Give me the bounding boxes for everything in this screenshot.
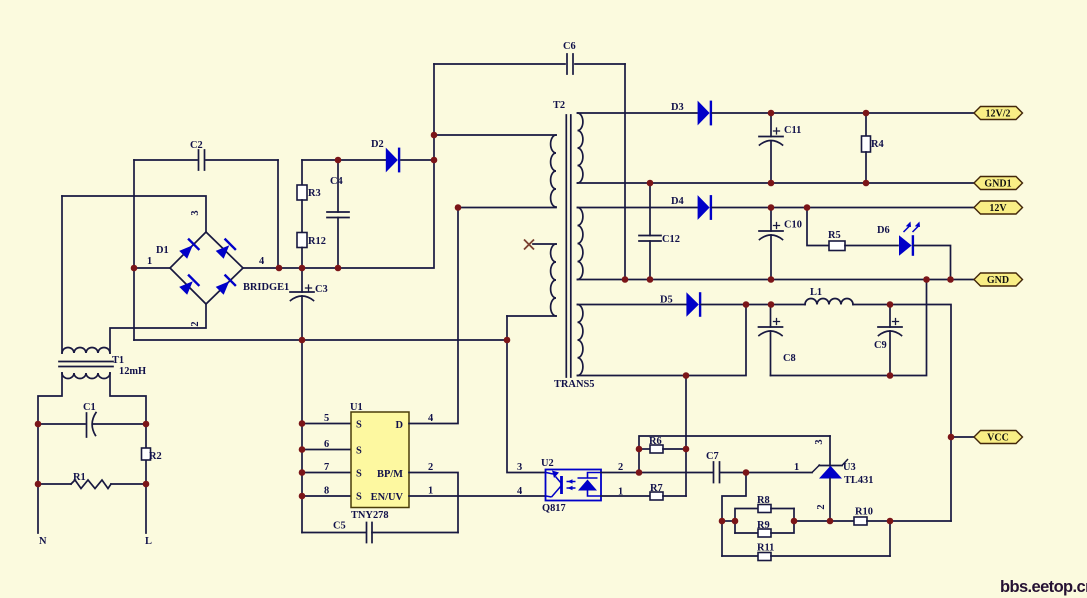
svg-text:S: S [356, 446, 362, 457]
junction C10 pos [768, 204, 775, 211]
wire C8 ground rail [771, 280, 927, 376]
wire primary top lead [434, 134, 556, 136]
bridge diode top-left [178, 239, 200, 261]
wire C6 right drop [624, 64, 626, 280]
svg-text:D4: D4 [671, 196, 684, 207]
svg-text:U2: U2 [541, 458, 554, 469]
junction bias return [504, 337, 511, 344]
wire T1 upper-left lead [61, 196, 63, 353]
junction primary top [431, 132, 438, 139]
svg-text:2: 2 [618, 462, 623, 473]
svg-text:R10: R10 [855, 507, 873, 518]
svg-text:C11: C11 [784, 125, 801, 136]
wire U1 pin8 [302, 495, 351, 497]
wire 12V/2 net [712, 112, 974, 114]
svg-text:S: S [356, 492, 362, 503]
resistor R7 [601, 495, 650, 497]
wire U3 cathode net [639, 436, 830, 473]
wire L1 to VCC rail [853, 305, 951, 522]
svg-text:U3: U3 [843, 462, 856, 473]
svg-text:4: 4 [259, 256, 264, 267]
wire U2 pin2 net [601, 472, 713, 474]
svg-text:6: 6 [324, 439, 329, 450]
wire GND1 net [578, 182, 975, 184]
svg-text:R5: R5 [828, 230, 841, 241]
wire left vertical to rail [133, 160, 135, 340]
svg-text:C9: C9 [874, 340, 887, 351]
resistor R2 [142, 448, 151, 460]
junction R12-C3 [299, 265, 306, 272]
wire primary bottom lead [458, 207, 556, 209]
wire U1 pin7 [302, 472, 351, 474]
junction C3 neg rail [299, 337, 306, 344]
capacitor C8 [770, 305, 772, 328]
junction C9 neg [887, 372, 894, 379]
junction C2 loop / DC+ [276, 265, 283, 272]
svg-text:2: 2 [428, 462, 433, 473]
wire divider top link [722, 520, 735, 522]
svg-text:TNY278: TNY278 [351, 510, 389, 521]
svg-text:2: 2 [816, 504, 827, 509]
junction C4 bottom [335, 265, 342, 272]
svg-text:3: 3 [814, 439, 825, 444]
junction C6-GND [622, 276, 629, 283]
junction U2 pin2 node [636, 469, 643, 476]
resistor R1 [38, 483, 71, 485]
svg-text:R1: R1 [73, 472, 86, 483]
junction R4 top [863, 110, 870, 117]
wire U1 source pins bus [301, 340, 303, 533]
transformer T2 bias winding [551, 244, 556, 316]
svg-text:R11: R11 [757, 543, 774, 554]
bridge diode bottom-left [178, 275, 200, 297]
transformer T2 core [566, 115, 571, 377]
svg-text:T1: T1 [112, 355, 124, 366]
wire D2 anode net [302, 159, 386, 161]
wire D6 cathode to GND [914, 246, 951, 280]
resistor R12 [301, 200, 303, 233]
svg-text:L1: L1 [810, 287, 822, 298]
svg-text:2: 2 [190, 321, 201, 326]
junction R8R9 left [732, 518, 739, 525]
svg-text:R3: R3 [308, 188, 321, 199]
capacitor C5 [302, 532, 366, 534]
transformer T2 secondary winding 3 [578, 305, 583, 376]
capacitor C10 [770, 208, 772, 232]
svg-text:VCC: VCC [987, 433, 1009, 444]
optocoupler U2 phototransistor [578, 473, 602, 497]
capacitor C4 [337, 160, 339, 212]
svg-text:D: D [395, 420, 403, 431]
svg-text:D2: D2 [371, 139, 384, 150]
svg-text:8: 8 [324, 486, 329, 497]
svg-text:C5: C5 [333, 521, 346, 532]
svg-text:S: S [356, 420, 362, 431]
resistor R4 [865, 113, 867, 136]
capacitor C9 [889, 305, 891, 328]
capacitor C1 [38, 423, 85, 425]
svg-text:D3: D3 [671, 102, 684, 113]
junction bias feed [683, 372, 690, 379]
wire bias winding bottom lead [507, 315, 556, 317]
svg-text:C7: C7 [706, 451, 719, 462]
wire R11 right riser [889, 521, 891, 556]
inductor T1 lower winding [62, 373, 110, 379]
wire bias winding top lead [533, 243, 556, 245]
wire bias return to U2 [507, 316, 546, 473]
junction C11 pos [768, 110, 775, 117]
junction primary bottom [455, 204, 462, 211]
wire bridge pin2 net [110, 304, 206, 353]
inductor T1 upper winding [62, 348, 110, 353]
port GND1 [974, 177, 1023, 190]
resistor R3 [301, 160, 303, 185]
junction rail-GND [923, 276, 930, 283]
LED D6 [899, 235, 913, 256]
svg-text:C6: C6 [563, 41, 576, 52]
svg-text:D6: D6 [877, 225, 890, 236]
junction divider left [719, 518, 726, 525]
svg-text:N: N [39, 536, 47, 547]
diode D3 [698, 101, 711, 126]
svg-text:R2: R2 [149, 451, 162, 462]
bridge diode bottom-right [214, 275, 236, 297]
junction D5 out [743, 301, 750, 308]
wire C7 to U3 ref [720, 472, 812, 474]
svg-text:BRIDGE1: BRIDGE1 [243, 282, 289, 293]
diode D4 [698, 195, 711, 220]
svg-text:TRANS5: TRANS5 [554, 379, 594, 390]
wire C2 right drop [277, 160, 279, 268]
svg-text:D1: D1 [156, 245, 169, 256]
junction S pin8 [299, 493, 306, 500]
resistor R10 [854, 517, 867, 525]
junction VCC tap [948, 434, 955, 441]
junction R1 right [143, 481, 150, 488]
wire U1 pin4 drain net [409, 208, 458, 424]
resistor R9 [735, 532, 758, 534]
wire secondary3 return [578, 305, 747, 376]
wire primary return rail [134, 339, 507, 341]
wire bridge pin1 [134, 267, 170, 269]
capacitor C7 [714, 462, 720, 483]
junction C9 pos [887, 301, 894, 308]
svg-text:12V: 12V [989, 203, 1007, 214]
capacitor C3 [301, 268, 303, 292]
junction C7 node [743, 469, 750, 476]
junction R1 left [35, 481, 42, 488]
wire C7 branch to divider [722, 473, 746, 557]
svg-text:R4: R4 [871, 139, 884, 150]
diode D5 [686, 292, 700, 317]
capacitor C6 [434, 63, 565, 65]
svg-text:R12: R12 [308, 236, 326, 247]
wire D2 cathode lead [401, 159, 434, 161]
port 12V [974, 201, 1023, 214]
wire D4 anode lead [578, 207, 698, 209]
junction C11 neg [768, 180, 775, 187]
transformer T2 secondary winding 1 [578, 113, 583, 183]
optocoupler U2 Q817 body [546, 470, 602, 501]
wire T1 lower-left lead [38, 373, 62, 533]
svg-text:U1: U1 [350, 402, 363, 413]
wire U1 pin6 [302, 449, 351, 451]
svg-text:C10: C10 [784, 220, 802, 231]
wire U1 pin5 [302, 423, 351, 425]
svg-text:GND1: GND1 [984, 179, 1011, 190]
svg-text:1: 1 [794, 462, 799, 473]
junction R6 right [683, 446, 690, 453]
junction U3 anode [827, 518, 834, 525]
resistor R8 [735, 509, 758, 534]
junction C8 pos [768, 301, 775, 308]
svg-text:R7: R7 [650, 483, 663, 494]
wire D5 anode lead [578, 304, 687, 306]
wire U3 anode net [794, 520, 854, 522]
junction D6-GND [947, 276, 954, 283]
svg-text:D5: D5 [660, 295, 673, 306]
diode D2 [386, 148, 399, 173]
junction C4 top [335, 157, 342, 164]
bridge diode top-right [214, 239, 236, 261]
resistor R6 [639, 448, 650, 450]
svg-text:R9: R9 [757, 520, 770, 531]
optocoupler U2 light arrows [567, 482, 576, 489]
svg-text:C4: C4 [330, 176, 343, 187]
svg-text:3: 3 [517, 462, 522, 473]
wire GND net [578, 279, 975, 281]
capacitor C11 [770, 113, 772, 137]
svg-text:S: S [356, 469, 362, 480]
svg-text:GND: GND [987, 275, 1009, 286]
junction S pin7 [299, 469, 306, 476]
optocoupler U2 LED [546, 473, 561, 498]
junction R6 left [636, 446, 643, 453]
svg-text:R8: R8 [757, 495, 770, 506]
svg-text:Q817: Q817 [542, 503, 566, 514]
junction bridge pin1 [131, 265, 138, 272]
svg-text:1: 1 [147, 256, 152, 267]
svg-text:C3: C3 [315, 284, 328, 295]
no-ERC marker X [524, 240, 534, 250]
capacitor C12 [649, 183, 651, 236]
op-amp U1 TNY278 body [351, 412, 409, 508]
svg-text:C1: C1 [83, 402, 96, 413]
inductor T1 core [59, 362, 113, 367]
svg-text:L: L [145, 536, 152, 547]
bridge rectifier D1 BRIDGE1 diamond [170, 232, 243, 304]
svg-text:4: 4 [428, 413, 433, 424]
junction C10-GND [768, 276, 775, 283]
svg-text:1: 1 [428, 486, 433, 497]
resistor R11 [722, 555, 758, 557]
shunt regulator U3 TL431 [829, 436, 831, 466]
junction C12-GND [647, 276, 654, 283]
resistor R5 [829, 241, 845, 251]
svg-text:C12: C12 [662, 234, 680, 245]
svg-text:5: 5 [324, 413, 329, 424]
wire D5 cathode / L1 net [701, 304, 805, 306]
capacitor C2 [199, 150, 205, 170]
junction R5 tap [804, 204, 811, 211]
LED D6 arrows [904, 226, 920, 233]
junction S pin6 [299, 446, 306, 453]
junction C1 left [35, 421, 42, 428]
svg-text:TL431: TL431 [844, 475, 873, 486]
wire bridge pin4 net [243, 64, 434, 268]
svg-text:7: 7 [324, 462, 329, 473]
port GND [974, 273, 1023, 286]
svg-text:bbs.eetop.cn: bbs.eetop.cn [1000, 578, 1087, 596]
wire R5 branch [807, 208, 829, 246]
wire R5 to D6 [845, 245, 898, 247]
svg-text:C8: C8 [783, 353, 796, 364]
wire U1 pin1 EN net [409, 495, 546, 497]
wire 12V net [712, 207, 974, 209]
svg-text:BP/M: BP/M [377, 469, 403, 480]
junction S pin5 [299, 420, 306, 427]
wire U1 pin2 BP net [409, 473, 458, 533]
junction R8R9 right [791, 518, 798, 525]
svg-text:C2: C2 [190, 140, 203, 151]
wire bridge pin3 net [62, 196, 206, 232]
transformer T2 secondary winding 2 [578, 208, 583, 280]
wire bias feed vertical [685, 376, 687, 497]
port 12V/2 [974, 107, 1023, 120]
svg-text:3: 3 [190, 210, 201, 215]
svg-text:R6: R6 [649, 436, 662, 447]
wire D3 anode lead [578, 112, 698, 114]
wire C2 loop top [134, 159, 278, 161]
wire T1 lower-right lead [110, 373, 146, 533]
svg-text:12V/2: 12V/2 [986, 109, 1011, 120]
port VCC [951, 436, 974, 438]
junction R10 out [887, 518, 894, 525]
svg-text:12mH: 12mH [119, 366, 146, 377]
junction C12 top [647, 180, 654, 187]
junction R4 bottom [863, 180, 870, 187]
inductor L1 [805, 299, 853, 305]
svg-text:EN/UV: EN/UV [371, 492, 404, 503]
svg-text:4: 4 [517, 486, 522, 497]
transformer T2 primary winding [551, 135, 556, 207]
svg-text:T2: T2 [553, 100, 565, 111]
junction D2 out [431, 157, 438, 164]
junction C1 right [143, 421, 150, 428]
